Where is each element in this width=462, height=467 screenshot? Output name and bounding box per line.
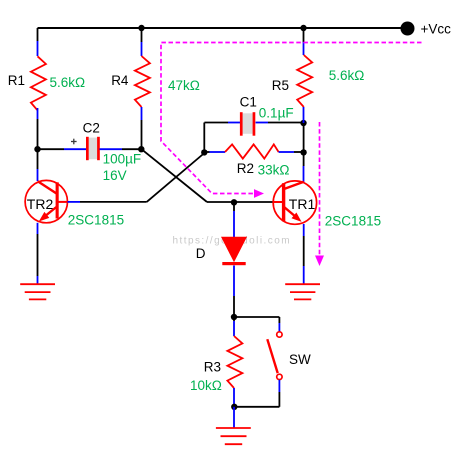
switch SW xyxy=(267,332,282,380)
transistor TR1 xyxy=(273,181,316,224)
node R3/SW bottom xyxy=(231,404,237,410)
wire TR2 base xyxy=(68,201,147,203)
svg-text:0.1µF: 0.1µF xyxy=(259,106,294,121)
wire TR2 emitter to ground xyxy=(37,223,39,284)
node R5 top junction xyxy=(300,25,306,31)
wire TR1 base horizontal xyxy=(207,201,274,203)
wire switch bottom xyxy=(235,380,280,407)
wire R1 top pin xyxy=(37,28,39,56)
Vcc terminal dot xyxy=(401,22,415,36)
svg-text:TR1: TR1 xyxy=(289,196,316,212)
svg-text:16V: 16V xyxy=(103,168,127,183)
wire node to C2 left xyxy=(38,148,88,150)
resistor R4 xyxy=(135,56,150,107)
wire top to switch branch xyxy=(234,317,279,332)
resistor R5 xyxy=(297,55,312,107)
wire R5 bottom pin xyxy=(303,107,305,123)
resistor R2 xyxy=(225,144,279,158)
wire TR1 emitter to ground xyxy=(303,224,305,284)
node TR1 base / diode xyxy=(231,199,237,205)
wire node to diode anode xyxy=(233,202,235,237)
svg-text:D: D xyxy=(196,246,206,261)
wire C1 node to R2 node xyxy=(303,123,305,152)
wire R2 node to TR1 collector xyxy=(303,152,305,183)
wire diagonal TR2 base to R2 node xyxy=(147,153,205,202)
svg-text:2SC1815: 2SC1815 xyxy=(325,214,381,229)
node C1 right xyxy=(300,120,306,126)
svg-text:SW: SW xyxy=(289,352,311,367)
feedback path magenta dashed left xyxy=(161,43,422,198)
wire diagonal C2 node to TR1 base xyxy=(142,149,208,202)
wire node to ground xyxy=(233,407,235,428)
ground bottom xyxy=(216,428,251,444)
node diode/R3/SW top xyxy=(231,314,237,320)
wire node up to C1 xyxy=(204,123,240,153)
svg-text:33kΩ: 33kΩ xyxy=(258,163,290,178)
node R1/C2/TR2 collector xyxy=(34,146,40,152)
wire R2 left pin xyxy=(204,151,209,153)
wire R3 bottom pin xyxy=(233,388,235,407)
svg-text:C1: C1 xyxy=(240,94,257,109)
wire R5 top pin xyxy=(303,28,305,55)
wire diode cathode down xyxy=(233,266,235,318)
node C2/R4 xyxy=(138,146,144,152)
wire R3 top pin xyxy=(233,317,235,336)
resistor R3 xyxy=(227,336,242,388)
svg-text:+Vcc: +Vcc xyxy=(421,21,452,36)
svg-text:R5: R5 xyxy=(272,78,289,93)
svg-text:R1: R1 xyxy=(8,73,25,88)
svg-text:R2: R2 xyxy=(237,161,254,176)
node R2/C1 left xyxy=(201,149,207,155)
capacitor C2 xyxy=(86,137,100,160)
capacitor C1 xyxy=(240,112,255,136)
wire R4 top pin xyxy=(141,28,143,56)
label + polarity xyxy=(71,139,77,145)
svg-text:47kΩ: 47kΩ xyxy=(168,78,200,93)
wire top Vcc rail xyxy=(38,27,409,29)
wire R1 bottom pin xyxy=(37,108,39,149)
wire C2 right to node xyxy=(100,148,142,150)
svg-text:C2: C2 xyxy=(83,120,100,135)
ground TR1 xyxy=(285,284,320,299)
svg-text:2SC1815: 2SC1815 xyxy=(68,213,124,228)
svg-text:10kΩ: 10kΩ xyxy=(190,378,222,393)
resistor R1 xyxy=(31,56,46,110)
svg-text:TR2: TR2 xyxy=(27,196,54,212)
svg-text:5.6kΩ: 5.6kΩ xyxy=(50,75,86,90)
svg-text:R3: R3 xyxy=(204,360,221,375)
transistor TR2 xyxy=(25,180,67,222)
node R4 top junction xyxy=(138,25,144,31)
svg-text:5.6kΩ: 5.6kΩ xyxy=(329,68,365,83)
feedback path magenta dashed right xyxy=(315,122,324,266)
node R2 right xyxy=(300,149,306,155)
ground TR2 xyxy=(20,284,55,299)
svg-text:100µF: 100µF xyxy=(103,152,142,167)
wire node to TR2 collector xyxy=(37,149,39,181)
diode D xyxy=(221,237,247,265)
wire C1 right to node xyxy=(256,122,304,124)
wire R2 right pin xyxy=(279,151,304,153)
svg-text:R4: R4 xyxy=(111,73,129,88)
wire R4 bottom pin xyxy=(141,107,143,149)
